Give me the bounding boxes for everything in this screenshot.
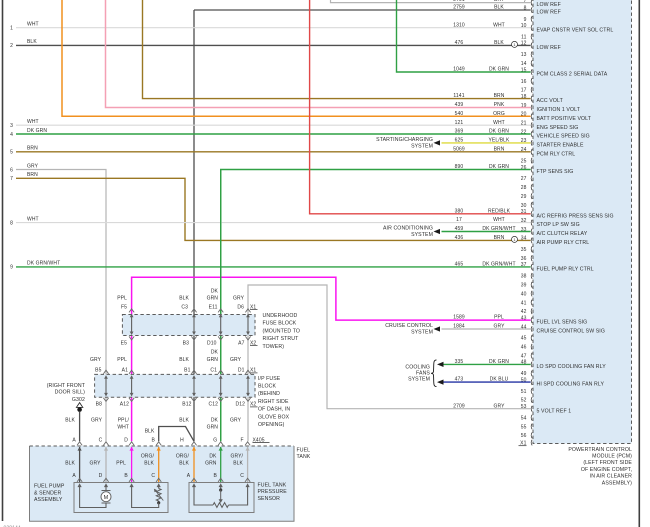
- svg-text:E11: E11: [209, 304, 218, 310]
- svg-text:RIGHT SIDE: RIGHT SIDE: [258, 399, 289, 405]
- svg-text:47: 47: [521, 353, 527, 359]
- svg-text:FUSE BLOCK: FUSE BLOCK: [263, 321, 297, 327]
- svg-text:52: 52: [521, 398, 527, 404]
- component pin letters inside tank: [72, 473, 244, 479]
- svg-text:DK GRN: DK GRN: [489, 129, 509, 135]
- svg-text:B5: B5: [95, 368, 101, 374]
- starting/charging system callout arrow: [376, 137, 440, 149]
- svg-text:540: 540: [455, 111, 464, 117]
- svg-text:9: 9: [10, 265, 13, 271]
- svg-text:A/C CLUTCH RELAY: A/C CLUTCH RELAY: [537, 231, 588, 237]
- svg-text:GRY/: GRY/: [230, 454, 243, 460]
- svg-text:ORG/: ORG/: [141, 454, 155, 460]
- svg-text:DK: DK: [211, 418, 219, 424]
- svg-text:56: 56: [521, 433, 527, 439]
- svg-text:890: 890: [455, 164, 464, 170]
- wire BLK from G302 to fuel tank connector pin A: [65, 412, 79, 441]
- wire 1310 WHT from left edge (1) to PCM pin 10: [10, 22, 530, 32]
- svg-text:121: 121: [455, 120, 464, 126]
- svg-text:IGNITION 1 VOLT: IGNITION 1 VOLT: [537, 107, 581, 113]
- svg-text:5 VOLT REF 1: 5 VOLT REF 1: [537, 408, 572, 414]
- wires inside fuel tank from X405 to components: [80, 447, 248, 483]
- svg-text:BLK: BLK: [65, 461, 75, 467]
- svg-text:BLK: BLK: [494, 5, 504, 11]
- svg-text:CRUISE CONTROL SW SIG: CRUISE CONTROL SW SIG: [537, 329, 606, 335]
- svg-text:SYSTEM: SYSTEM: [411, 144, 433, 150]
- svg-text:DK GRN/WHT: DK GRN/WHT: [482, 262, 515, 268]
- I/P fuse block body: [95, 374, 255, 397]
- svg-text:GRN: GRN: [207, 425, 219, 431]
- svg-text:D: D: [124, 437, 128, 443]
- svg-text:51: 51: [521, 389, 527, 395]
- svg-text:(LEFT FRONT SIDE: (LEFT FRONT SIDE: [583, 460, 632, 466]
- svg-text:PNK: PNK: [494, 102, 505, 108]
- svg-text:F: F: [241, 437, 244, 443]
- svg-text:WHT: WHT: [117, 425, 129, 431]
- svg-text:C3: C3: [181, 304, 188, 310]
- drawing id 928144: [4, 526, 21, 527]
- svg-text:ASSEMBLY): ASSEMBLY): [602, 480, 632, 486]
- svg-text:RED/BLK: RED/BLK: [488, 208, 511, 214]
- wire BLK label at B12 column: [0, 0, 1, 1]
- svg-text:27: 27: [521, 176, 527, 182]
- wire 1589 PPL from underhood fuse block F5 to PCM pin 43: [132, 277, 531, 321]
- fuel pump & sender assembly box: [74, 483, 168, 513]
- svg-text:BRN: BRN: [494, 146, 505, 152]
- svg-text:D10: D10: [207, 340, 217, 346]
- PCM signal name labels: [537, 2, 614, 414]
- svg-text:DK: DK: [211, 289, 219, 295]
- svg-text:40: 40: [521, 291, 527, 297]
- svg-text:WHT: WHT: [493, 120, 505, 126]
- underhood fuse block location label: [263, 313, 301, 350]
- wire 335 DK GRN from cooling fan system to PCM pin 48: [437, 359, 531, 367]
- fuel tank body with X405 connector top edge: [30, 446, 295, 521]
- svg-text:G302: G302: [72, 397, 85, 403]
- pressure sensor wiper: [219, 487, 223, 503]
- svg-text:1049: 1049: [453, 67, 465, 73]
- fuel tank label: [297, 447, 311, 460]
- svg-text:FUEL LVL SENS SIG: FUEL LVL SENS SIG: [537, 320, 588, 326]
- svg-text:GRY: GRY: [91, 418, 103, 424]
- svg-text:(BEHIND: (BEHIND: [258, 391, 280, 397]
- svg-text:GRN: GRN: [207, 357, 219, 363]
- svg-text:GRY: GRY: [230, 418, 242, 424]
- svg-text:UNDERHOOD: UNDERHOOD: [263, 313, 298, 319]
- svg-text:EVAP CNSTR VENT SOL CTRL: EVAP CNSTR VENT SOL CTRL: [537, 27, 614, 33]
- svg-text:465: 465: [455, 262, 464, 268]
- I/P fuse block location label: [258, 376, 290, 428]
- svg-text:25: 25: [521, 159, 527, 165]
- svg-text:1: 1: [10, 26, 13, 32]
- svg-text:AIR CONDITIONING: AIR CONDITIONING: [383, 226, 433, 232]
- svg-text:BLK: BLK: [179, 357, 189, 363]
- svg-text:4: 4: [10, 132, 13, 138]
- svg-text:I/P FUSE: I/P FUSE: [258, 376, 281, 382]
- svg-text:PCM CLASS 2 SERIAL DATA: PCM CLASS 2 SERIAL DATA: [537, 72, 608, 78]
- svg-text:49: 49: [521, 371, 527, 377]
- svg-text:17: 17: [456, 217, 462, 223]
- svg-text:5: 5: [10, 150, 13, 156]
- wire 1884 GRY from cruise control system to PCM pin 44: [442, 324, 531, 330]
- svg-text:DK GRN: DK GRN: [27, 128, 47, 134]
- underhood fuse block top pin labels F5 C3 E11 D6 X1: [121, 304, 258, 310]
- underhood fuse block pass-through pins (arrows): [129, 309, 251, 340]
- wire 2791 GRY to PCM pin 7 (top, partially cut): [331, 0, 531, 3]
- splice symbol (1) on wire 476 at pin 12: [512, 41, 518, 47]
- wire 625 YEL/BLK from starting/charging system to PCM pin 23: [442, 138, 531, 144]
- svg-text:AIR PUMP RLY CTRL: AIR PUMP RLY CTRL: [537, 240, 590, 246]
- svg-text:55: 55: [521, 424, 527, 430]
- svg-text:GRY: GRY: [493, 324, 505, 330]
- svg-text:FTP SENS SIG: FTP SENS SIG: [537, 169, 574, 175]
- svg-text:DK: DK: [211, 350, 219, 356]
- svg-text:WHT: WHT: [27, 22, 39, 28]
- svg-text:B3: B3: [183, 340, 189, 346]
- svg-text:IN AIR CLEANER: IN AIR CLEANER: [590, 474, 632, 480]
- svg-text:A12: A12: [120, 402, 129, 408]
- svg-text:TOWER): TOWER): [263, 344, 285, 350]
- svg-text:GRY: GRY: [233, 296, 245, 302]
- air conditioning system callout arrow: [383, 226, 440, 238]
- svg-text:625: 625: [455, 138, 464, 144]
- wire GRY trunk I/P block B8 to fuel tank connector (column x=106): [105, 397, 107, 441]
- svg-text:SYSTEM: SYSTEM: [408, 377, 430, 383]
- svg-text:LOW REF: LOW REF: [537, 10, 561, 16]
- svg-text:28: 28: [521, 185, 527, 191]
- svg-text:36: 36: [521, 256, 527, 262]
- svg-text:(MOUNTED TO: (MOUNTED TO: [263, 328, 301, 334]
- svg-text:ORG: ORG: [493, 111, 505, 117]
- wire 465 DK GRN/WHT from left edge (9) to PCM pin 37: [10, 261, 530, 271]
- svg-text:BLK: BLK: [27, 39, 37, 45]
- wire BLK ground path to motor: [80, 487, 106, 508]
- svg-text:PPL: PPL: [117, 357, 127, 363]
- svg-text:ORG/: ORG/: [176, 454, 190, 460]
- pressure sensor internal resistor: [194, 487, 248, 507]
- wire 380 RED/BLK from top edge to PCM pin 31: [310, 0, 531, 214]
- svg-text:29: 29: [521, 194, 527, 200]
- PCM connector X1 body (blue dashed box): [533, 0, 632, 444]
- svg-text:A7: A7: [238, 340, 244, 346]
- svg-text:B8: B8: [96, 402, 102, 408]
- fuel pump box wire entries: [77, 478, 161, 487]
- svg-text:BLK: BLK: [494, 40, 504, 46]
- svg-text:FUEL: FUEL: [297, 447, 311, 453]
- svg-text:1884: 1884: [453, 324, 465, 330]
- svg-text:GLOVE BOX: GLOVE BOX: [258, 414, 290, 420]
- underhood fuse block body: [122, 315, 255, 336]
- wire 369 DK GRN from left edge (4) to PCM pin 22: [10, 128, 530, 138]
- page right border: [638, 0, 640, 527]
- svg-text:8: 8: [10, 220, 13, 226]
- svg-text:2791: 2791: [453, 0, 465, 3]
- wire 1049 DK GRN from top edge to PCM pin 15: [397, 0, 531, 73]
- page left border: [2, 0, 4, 521]
- wire BLK jog from X405 pin B to pin H: [145, 427, 194, 442]
- wire GRY from left edge (6) down to I/P fuse block pin B5: [10, 163, 106, 374]
- svg-text:VEHICLE SPEED SIG: VEHICLE SPEED SIG: [537, 134, 590, 140]
- cooling fans system callout brace: [405, 360, 436, 387]
- svg-text:C: C: [151, 473, 155, 479]
- svg-text:LOW REF: LOW REF: [537, 45, 561, 51]
- svg-text:BATT POSITIVE VOLT: BATT POSITIVE VOLT: [537, 116, 592, 122]
- svg-text:LO SPD COOLING FAN RLY: LO SPD COOLING FAN RLY: [537, 364, 607, 370]
- svg-text:& SENDER: & SENDER: [34, 490, 61, 496]
- wire 436 BRN from left edge (7) to PCM pin 34: [10, 172, 530, 241]
- svg-text:FUEL PUMP: FUEL PUMP: [34, 484, 65, 490]
- svg-text:STOP LP SW SIG: STOP LP SW SIG: [537, 222, 580, 228]
- svg-text:RIGHT STRUT: RIGHT STRUT: [263, 336, 300, 342]
- svg-text:BRN: BRN: [494, 235, 505, 241]
- svg-text:ENG SPEED SIG: ENG SPEED SIG: [537, 125, 579, 131]
- svg-text:335: 335: [455, 359, 464, 365]
- svg-text:SYSTEM: SYSTEM: [411, 232, 433, 238]
- wire 890 DK GRN trunk from fuel tank pressure sensor to PCM pin 26: [221, 164, 531, 441]
- svg-text:GRN: GRN: [205, 461, 217, 467]
- svg-text:BLK: BLK: [179, 296, 189, 302]
- svg-text:DK BLU: DK BLU: [490, 377, 509, 383]
- svg-text:439: 439: [455, 102, 464, 108]
- svg-text:DK: DK: [209, 454, 217, 460]
- svg-text:BLK: BLK: [144, 461, 154, 467]
- svg-text:B1: B1: [184, 368, 190, 374]
- svg-text:369: 369: [455, 129, 464, 135]
- svg-text:ACC VOLT: ACC VOLT: [537, 98, 564, 104]
- svg-text:(RIGHT FRONT: (RIGHT FRONT: [47, 383, 86, 389]
- svg-text:POWERTRAIN CONTROL: POWERTRAIN CONTROL: [568, 447, 632, 453]
- svg-text:OF ENGINE COMPT,: OF ENGINE COMPT,: [581, 467, 632, 473]
- svg-text:39: 39: [521, 283, 527, 289]
- svg-text:46: 46: [521, 345, 527, 351]
- svg-text:GRY: GRY: [90, 357, 102, 363]
- svg-text:BRN: BRN: [27, 146, 38, 152]
- svg-text:DK GRN: DK GRN: [489, 359, 509, 365]
- svg-text:TANK: TANK: [297, 454, 311, 460]
- wire 473 DK BLU from cooling fan system to PCM pin 50: [437, 377, 531, 385]
- svg-text:5069: 5069: [453, 146, 465, 152]
- svg-text:ASSEMBLY: ASSEMBLY: [34, 497, 63, 503]
- svg-text:D12: D12: [236, 402, 246, 408]
- underhood fuse block bottom pin labels E5 B3 D10 A7 X2: [121, 340, 258, 346]
- svg-text:380: 380: [455, 208, 464, 214]
- svg-text:GRY: GRY: [89, 461, 101, 467]
- svg-text:A: A: [72, 437, 76, 443]
- svg-text:STARTER ENABLE: STARTER ENABLE: [537, 143, 584, 149]
- svg-text:14: 14: [521, 61, 527, 67]
- svg-text:STARTING/CHARGING: STARTING/CHARGING: [376, 137, 433, 143]
- svg-text:476: 476: [455, 40, 464, 46]
- svg-text:7: 7: [10, 176, 13, 182]
- wire GRY 5V ref trunk through fuse blocks (column x=248): [247, 313, 249, 441]
- wire PPL trunk through fuse blocks to fuel tank (column x=131.6): [131, 313, 133, 441]
- svg-text:2709: 2709: [453, 403, 465, 409]
- svg-text:A/C REFRIG PRESS SENS SIG: A/C REFRIG PRESS SENS SIG: [537, 213, 614, 219]
- svg-text:41: 41: [521, 300, 527, 306]
- wire 476 BLK from left edge (2) to PCM pin 12: [10, 39, 530, 49]
- splice symbol (1) on wire 436 at pin 34: [512, 236, 518, 242]
- wire 540 ORG from top edge to PCM pin 20: [62, 0, 531, 117]
- svg-text:BRN: BRN: [494, 93, 505, 99]
- svg-text:42: 42: [521, 309, 527, 315]
- svg-text:CRUISE CONTROL: CRUISE CONTROL: [385, 323, 433, 329]
- svg-text:WHT: WHT: [493, 22, 505, 28]
- PCM pin numbers 7-56 and X1 with brackets: [519, 0, 533, 446]
- svg-text:35: 35: [521, 247, 527, 253]
- svg-text:6: 6: [10, 167, 13, 173]
- svg-text:MODULE (PCM): MODULE (PCM): [592, 454, 632, 460]
- svg-text:DK GRN/WHT: DK GRN/WHT: [482, 226, 515, 232]
- svg-text:SYSTEM: SYSTEM: [411, 330, 433, 336]
- svg-text:H: H: [180, 437, 184, 443]
- wire 121 WHT from left edge (3) to PCM pin 21: [10, 119, 530, 129]
- wire 2759 BLK vertical trunk and to PCM pin 8: [194, 5, 531, 442]
- fuel pump motor M: [101, 487, 111, 506]
- svg-text:OF DASH, IN: OF DASH, IN: [258, 407, 290, 413]
- svg-text:A: A: [72, 473, 76, 479]
- svg-text:BRN: BRN: [27, 172, 38, 178]
- fuel level sender variable resistor: [154, 487, 163, 504]
- svg-text:OPENING): OPENING): [258, 422, 285, 428]
- svg-text:G: G: [213, 437, 217, 443]
- svg-text:1589: 1589: [453, 315, 465, 321]
- svg-text:WHT: WHT: [27, 119, 39, 125]
- svg-text:C12: C12: [209, 402, 219, 408]
- svg-text:C: C: [240, 473, 244, 479]
- svg-text:FUEL TANK: FUEL TANK: [258, 483, 287, 489]
- fuel tank wire color labels: [65, 454, 243, 467]
- svg-text:A1: A1: [122, 368, 128, 374]
- svg-text:LOW REF: LOW REF: [537, 2, 561, 8]
- svg-text:DOOR SILL): DOOR SILL): [55, 390, 86, 396]
- wire 459 DK GRN/WHT from air conditioning system to PCM pin 33: [442, 226, 531, 232]
- svg-text:GRY: GRY: [493, 0, 505, 3]
- I/P fuse block bottom pin labels B8 A12 B12 C12 D12 X2: [96, 402, 258, 408]
- svg-text:1310: 1310: [453, 22, 465, 28]
- svg-text:436: 436: [455, 235, 464, 241]
- svg-text:GRY: GRY: [493, 403, 505, 409]
- svg-text:B12: B12: [182, 402, 191, 408]
- svg-text:PPL/: PPL/: [118, 418, 130, 424]
- cruise control system callout arrow: [385, 323, 440, 335]
- svg-text:B: B: [124, 473, 128, 479]
- svg-text:DK GRN/WHT: DK GRN/WHT: [27, 261, 60, 267]
- svg-text:GRY: GRY: [230, 357, 242, 363]
- svg-text:9: 9: [524, 17, 527, 23]
- pressure sensor wire entries: [191, 478, 250, 487]
- wire PPL sender signal path: [132, 487, 159, 508]
- svg-text:459: 459: [455, 226, 464, 232]
- svg-text:PPL: PPL: [116, 461, 126, 467]
- svg-text:B: B: [151, 437, 155, 443]
- svg-text:17: 17: [521, 88, 527, 94]
- underhood fuse block wire color labels above: [117, 289, 244, 302]
- wire 1141 BRN from top edge to PCM pin 18: [143, 0, 531, 99]
- svg-text:FUEL PUMP RLY CTRL: FUEL PUMP RLY CTRL: [537, 267, 594, 273]
- svg-text:WHT: WHT: [493, 217, 505, 223]
- PCM location label: [568, 447, 632, 487]
- svg-text:PRESSURE: PRESSURE: [258, 489, 288, 495]
- svg-text:C1: C1: [210, 368, 217, 374]
- svg-text:473: 473: [455, 377, 464, 383]
- svg-text:BLK: BLK: [179, 418, 189, 424]
- X405 connector pins A C D B H G F: [72, 437, 269, 450]
- svg-text:GRN: GRN: [207, 296, 219, 302]
- svg-text:M: M: [104, 495, 109, 501]
- svg-text:C: C: [99, 437, 103, 443]
- svg-text:GRY: GRY: [27, 163, 39, 169]
- svg-text:BLOCK: BLOCK: [258, 384, 277, 390]
- svg-text:SENSOR: SENSOR: [258, 496, 281, 502]
- ground G302: [47, 383, 86, 412]
- svg-text:BLK: BLK: [145, 429, 155, 435]
- svg-text:B: B: [213, 473, 217, 479]
- svg-text:E5: E5: [121, 340, 127, 346]
- svg-text:11: 11: [521, 35, 527, 41]
- svg-text:DK GRN: DK GRN: [489, 164, 509, 170]
- svg-text:PPL: PPL: [117, 296, 127, 302]
- I/P fuse block top pin labels B5 A1 B1 C1 D1 X1: [95, 368, 257, 374]
- svg-text:PCM RLY CTRL: PCM RLY CTRL: [537, 151, 576, 157]
- svg-text:BLK: BLK: [65, 418, 75, 424]
- wire 439 PNK from top edge to PCM pin 19: [106, 0, 531, 108]
- svg-text:2759: 2759: [453, 5, 465, 11]
- wire 2709 GRY from underhood fuse block D6 to PCM pin 53: [248, 285, 531, 409]
- fuel tank pressure sensor label: [258, 483, 288, 502]
- svg-text:WHT: WHT: [27, 216, 39, 222]
- svg-text:45: 45: [521, 336, 527, 342]
- fuel pump & sender assembly label: [34, 484, 65, 503]
- svg-text:BLK: BLK: [233, 461, 243, 467]
- svg-text:13: 13: [521, 52, 527, 58]
- svg-text:2: 2: [10, 43, 13, 49]
- svg-text:HI SPD COOLING FAN RLY: HI SPD COOLING FAN RLY: [537, 382, 605, 388]
- svg-text:PPL: PPL: [494, 315, 504, 321]
- svg-text:54: 54: [521, 416, 527, 422]
- svg-text:A: A: [187, 473, 191, 479]
- svg-text:3: 3: [10, 123, 13, 129]
- svg-text:YEL/BLK: YEL/BLK: [489, 138, 511, 144]
- I/P fuse block wire color labels above: [90, 350, 242, 364]
- wire DK GRN trunk from pin 26 row down to fuel tank (column x=220.7): [220, 170, 222, 442]
- svg-text:F5: F5: [121, 304, 127, 310]
- I/P fuse block pass-through pins (arrows): [103, 370, 250, 401]
- svg-text:D1: D1: [238, 368, 245, 374]
- wire 5069 BRN from left edge (5) to PCM pin 24: [10, 146, 530, 156]
- svg-text:BLK: BLK: [179, 461, 189, 467]
- svg-text:DK GRN: DK GRN: [489, 67, 509, 73]
- svg-text:30: 30: [521, 203, 527, 209]
- fuel tank pressure sensor box: [189, 483, 254, 513]
- wire 17 WHT from left edge (8) to PCM pin 32: [10, 216, 530, 226]
- svg-text:7: 7: [524, 0, 527, 4]
- svg-text:D: D: [99, 473, 103, 479]
- svg-text:16: 16: [521, 79, 527, 85]
- svg-text:38: 38: [521, 274, 527, 280]
- I/P fuse block wire color labels below: [91, 418, 242, 431]
- svg-text:D6: D6: [237, 304, 244, 310]
- svg-text:1141: 1141: [453, 93, 464, 99]
